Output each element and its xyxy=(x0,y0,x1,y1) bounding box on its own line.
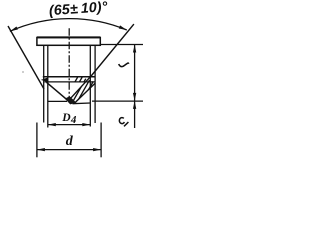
bulge underside line right segment / l l1 reference xyxy=(92,100,143,102)
angle text (65±10)° xyxy=(48,0,108,19)
d dimension line xyxy=(37,149,101,151)
bulge underside line left segment xyxy=(48,100,67,102)
svg-text:d: d xyxy=(66,134,74,149)
apex junction blob xyxy=(65,96,77,104)
inner recess right edge / D4 extension xyxy=(89,45,91,126)
label l xyxy=(119,63,129,67)
cone V left side xyxy=(47,82,69,101)
D4 left arrow xyxy=(48,123,56,126)
label d xyxy=(66,134,74,149)
flange (head) outline xyxy=(37,38,100,46)
cone corner solid arrow blob xyxy=(41,78,48,83)
label l1 xyxy=(119,118,124,124)
D4 dimension line xyxy=(48,124,91,126)
l top arrow xyxy=(133,45,136,53)
l bottom arrow xyxy=(133,93,136,101)
hatching of cone wall section xyxy=(50,73,119,128)
inner recess left edge / D4 extension xyxy=(47,45,49,127)
small speck xyxy=(22,71,23,72)
right angle extension line xyxy=(90,24,134,77)
l1 top arrow xyxy=(133,101,136,109)
dimension arc xyxy=(10,19,127,32)
body left edge xyxy=(43,45,45,122)
arc left arrowhead xyxy=(10,26,18,31)
cone V right inner edge xyxy=(68,77,90,101)
D4 right arrow xyxy=(82,123,90,126)
l top reference line xyxy=(100,44,143,46)
d extension line left xyxy=(36,123,38,158)
bulge bottom right short line xyxy=(73,102,91,105)
cone wall outer edge xyxy=(74,83,95,103)
d extension line right xyxy=(100,123,102,158)
d right arrow xyxy=(93,148,101,151)
arc right arrowhead xyxy=(119,25,127,30)
flange top line (thicker) xyxy=(37,36,100,38)
left angle extension line xyxy=(8,26,44,89)
body right edge xyxy=(94,45,96,123)
label D4 xyxy=(61,111,77,126)
l / l1 dimension line xyxy=(134,45,136,129)
cone top line A xyxy=(43,76,95,78)
centerline xyxy=(68,28,70,101)
svg-text:D4: D4 xyxy=(61,111,77,126)
d left arrow xyxy=(37,148,45,151)
cone line B xyxy=(45,81,96,83)
